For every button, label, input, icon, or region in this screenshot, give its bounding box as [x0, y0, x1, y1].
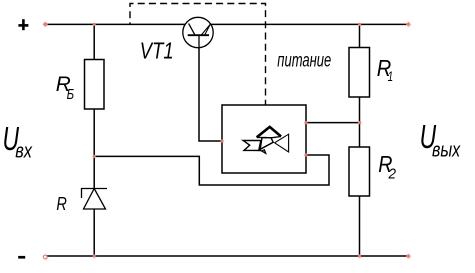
svg-text:R: R: [56, 193, 67, 214]
svg-text:Б: Б: [67, 87, 75, 103]
svg-text:вых: вых: [432, 140, 461, 162]
svg-text:2: 2: [388, 167, 396, 183]
svg-text:питание: питание: [277, 50, 331, 71]
svg-text:VT1: VT1: [140, 38, 174, 64]
svg-text:1: 1: [388, 68, 394, 84]
svg-text:вх: вх: [15, 141, 33, 163]
